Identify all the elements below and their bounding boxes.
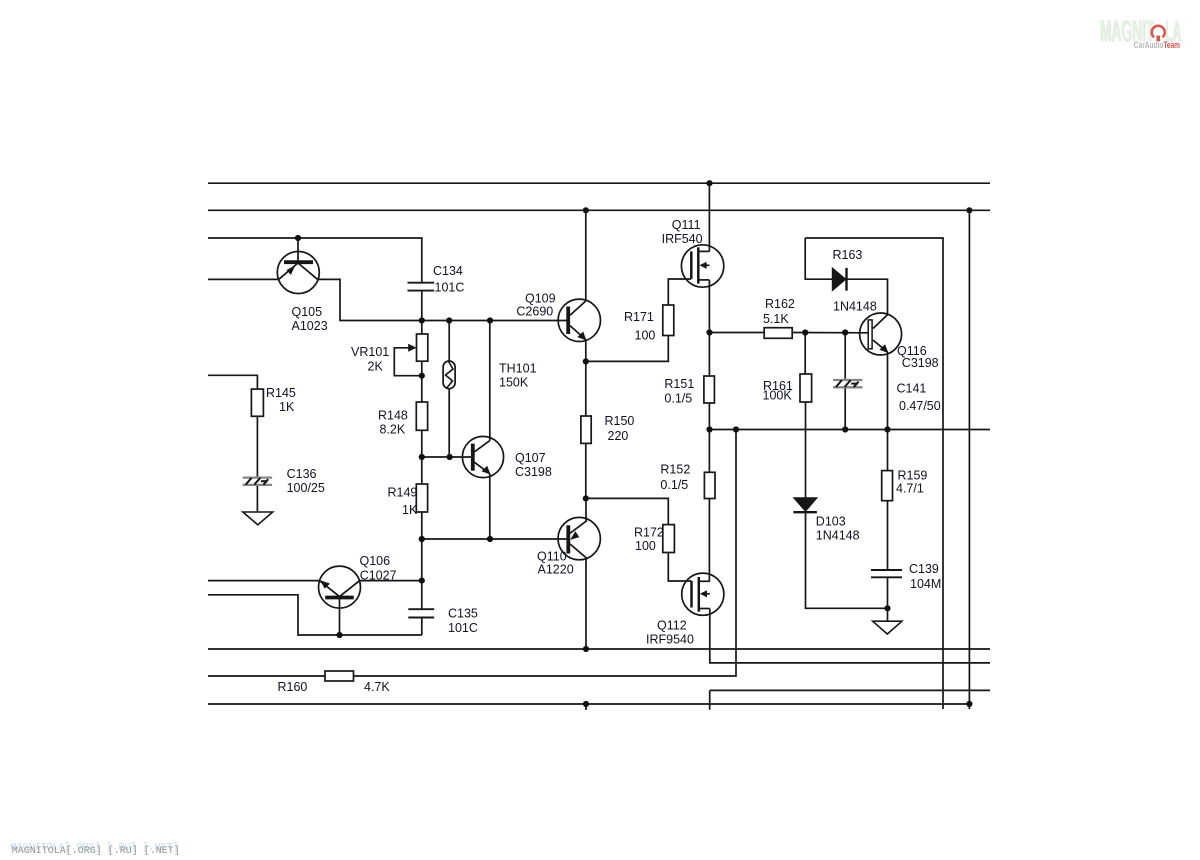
svg-text:Q109: Q109 (525, 292, 556, 306)
mosfet Q112 (IRF9540) (682, 573, 724, 615)
wire R172 bottom to Q112 gate (668, 553, 691, 582)
wire C139 bottom node (887, 577, 889, 608)
junction node E / Q111 source (706, 329, 712, 335)
svg-text:R160: R160 (278, 680, 308, 694)
junction node C / Q107 emitter (487, 536, 493, 542)
junction H2/Q109 collector (583, 207, 589, 213)
capacitor C139 (871, 570, 902, 577)
wire node E to R162 (709, 332, 764, 334)
svg-text:2K: 2K (368, 360, 384, 374)
transistor Q110 (PNP A1220) (558, 517, 600, 559)
wire R148 top stub (421, 376, 423, 402)
wire R161 bottom to D103 (805, 402, 807, 498)
svg-text:R171: R171 (624, 310, 654, 324)
svg-text:R150: R150 (605, 414, 635, 428)
wire C136 bottom to ground 1 (256, 485, 258, 512)
wire R159 bottom to C139 (887, 501, 889, 570)
junction H2/right bus (966, 207, 972, 213)
wire VR101 bottom stub (421, 361, 423, 376)
capacitor C134 (408, 283, 435, 291)
junction node E / R161 (802, 329, 808, 335)
wire VR101 top stub (421, 321, 423, 335)
junction rail bottom 4 / right bus (966, 701, 972, 707)
wire output rail (709, 429, 990, 431)
mosfet Q111 (IRF540) (681, 245, 723, 287)
wire R149 bottom to node C (421, 512, 423, 539)
junction output rail / R151 (706, 426, 712, 432)
svg-text:R172: R172 (634, 526, 664, 540)
wire H3 left segment to C134 (208, 238, 422, 283)
wire node C down to C135 node (421, 539, 423, 609)
wire R151 bottom to output rail (708, 403, 710, 430)
svg-text:150K: 150K (499, 376, 529, 390)
wire R162 right to Q116 base (792, 332, 868, 334)
resistor R162 (horizontal) (764, 328, 792, 339)
transistor Q105 (PNP A1023, bar top) (277, 252, 319, 294)
svg-text:CarAudio: CarAudio (1134, 40, 1164, 50)
logo power icon (1152, 26, 1165, 41)
wire C141 top stub (844, 333, 846, 379)
svg-text:C3198: C3198 (515, 465, 552, 479)
logo MAGNITOLA top-right (1099, 13, 1181, 50)
svg-text:5.1K: 5.1K (763, 312, 789, 326)
junction node D (583, 495, 589, 501)
wire rail bottom 4 (208, 703, 969, 705)
svg-text:A1023: A1023 (292, 319, 328, 333)
svg-text:VR101: VR101 (351, 345, 389, 359)
wire Q111 drain up to H1 (708, 183, 710, 251)
wire VR101 wiper (394, 348, 422, 376)
wire right bus x969 (968, 210, 970, 709)
wire R145 bottom to C136 (256, 416, 258, 477)
wire R171 top to Q111 gate (668, 279, 691, 305)
wire TH101 bottom (448, 389, 450, 457)
svg-text:TH101: TH101 (499, 362, 537, 376)
junction rail bottom 4 node F (583, 701, 589, 707)
resistor R161 (800, 374, 812, 402)
svg-text:C136: C136 (287, 467, 317, 481)
transistor Q116 (NPN C3198, hollow bar) (860, 313, 902, 355)
svg-text:R159: R159 (898, 469, 928, 483)
svg-text:Q111: Q111 (672, 218, 701, 232)
wire Q110 emitter up (585, 498, 587, 520)
wire rail bottom 3 stub down (709, 690, 711, 709)
ground below C139 (873, 621, 902, 634)
capacitor C141 (electrolytic, hatched) (833, 380, 862, 387)
junction node B / R148 (419, 454, 425, 460)
junction node B / TH101 bottom (447, 454, 453, 460)
svg-text:R152: R152 (660, 463, 690, 477)
svg-text:C1027: C1027 (360, 569, 397, 583)
svg-text:R162: R162 (765, 297, 795, 311)
wire rail bottom 2 with feedback riser (208, 430, 736, 677)
capacitor C135 (408, 609, 434, 617)
wire Q112 source down then right (710, 609, 990, 663)
svg-text:C141: C141 (897, 382, 927, 396)
resistor R150 (581, 416, 591, 443)
wire Q105 base input (208, 278, 279, 280)
junction node E / C141 (842, 329, 848, 335)
svg-text:1K: 1K (279, 400, 295, 414)
wire TH101 top (448, 321, 450, 362)
junction node A / Q107 collector (487, 317, 493, 323)
wire rail H2 (208, 209, 990, 211)
wire node D to R172 (586, 498, 669, 524)
svg-text:C3198: C3198 (902, 356, 939, 370)
svg-text:101C: 101C (435, 281, 465, 295)
wire Q105 collector to node A (318, 279, 422, 320)
wire R152 top stub (708, 430, 710, 473)
svg-text:8.2K: 8.2K (380, 423, 406, 437)
wire Q109 emitter down (585, 340, 587, 362)
svg-text:Q110: Q110 (537, 549, 567, 563)
junction node C / R149 (419, 536, 425, 542)
svg-text:220: 220 (608, 429, 629, 443)
transistor Q107 (NPN C3198) (462, 436, 503, 477)
svg-text:4.7/1: 4.7/1 (896, 482, 924, 496)
svg-text:4.7K: 4.7K (364, 680, 390, 694)
svg-text:1K: 1K (402, 503, 418, 517)
wire D111 cathode to Q116 collector (847, 279, 888, 315)
wire Q107 emitter down (489, 474, 491, 539)
wire node B to Q107 base (422, 456, 471, 458)
transistor Q109 (NPN C2690) (558, 299, 600, 341)
svg-text:Q106: Q106 (360, 554, 391, 568)
transistor Q106 (NPN C1027, bar bottom) (319, 566, 361, 608)
svg-text:104M: 104M (910, 577, 941, 591)
wire Q106 emitter input (208, 580, 320, 582)
svg-text:C134: C134 (433, 264, 463, 278)
resistor R160 (horizontal) (325, 671, 354, 681)
wire R152 bottom to Q112 drain (708, 499, 710, 582)
wire R151 top stub (708, 333, 710, 377)
wire right bus x943 (805, 238, 943, 709)
svg-text:1N4148: 1N4148 (833, 300, 877, 314)
wire R148 bottom to node B (421, 430, 423, 457)
wire Q107 collector up (489, 321, 491, 441)
wire Q109 emitter node to R171 (586, 336, 669, 362)
wire Q110 collector down to rail (585, 558, 587, 649)
wire C134 bottom (421, 291, 423, 321)
svg-text:0.1/5: 0.1/5 (664, 392, 692, 406)
svg-text:R149: R149 (388, 486, 418, 500)
potentiometer VR101 (408, 334, 428, 361)
resistor R151 (704, 376, 715, 403)
svg-text:C135: C135 (448, 607, 478, 621)
junction Q106 base (336, 632, 342, 638)
ground below C136 (243, 512, 273, 525)
svg-text:Q112: Q112 (657, 619, 687, 633)
diode D111 (1N4148 at R163, pointing right) (832, 268, 846, 291)
svg-text:100/25: 100/25 (287, 481, 325, 495)
wire node C to Q110 base (422, 538, 567, 540)
svg-text:D103: D103 (816, 515, 846, 529)
wire C141 bottom to output rail (844, 387, 846, 430)
svg-text:Q107: Q107 (515, 451, 546, 465)
svg-text:100: 100 (635, 539, 656, 553)
wire R149 top stub (421, 457, 423, 484)
junction C135 top (419, 578, 425, 584)
wire Q106 base down (339, 599, 341, 635)
svg-text:IRF9540: IRF9540 (646, 633, 694, 647)
wire rail H1 (top supply) (208, 182, 990, 184)
junction H1/Q111 drain (706, 180, 712, 186)
junction node A / C134 (419, 317, 425, 323)
resistor R152 (704, 472, 715, 498)
logo CarAudio Team (1134, 40, 1180, 50)
wire R150 top stub (585, 361, 587, 416)
wire D103 cathode down then right (806, 512, 888, 608)
wire R161 top stub (804, 333, 806, 375)
wire rail bottom 3 (710, 689, 990, 691)
svg-text:1N4148: 1N4148 (816, 529, 860, 543)
diode D103 (1N4148, pointing down) (793, 498, 817, 512)
wire D111 anode branch (805, 238, 832, 279)
svg-text:C2690: C2690 (516, 305, 553, 319)
junction node A / TH101 (446, 317, 452, 323)
junction VR101 wiper (419, 373, 425, 379)
junction output rail / C141 (842, 426, 848, 432)
junction output rail / Q116 emitter (884, 426, 890, 432)
svg-text:R163: R163 (833, 248, 863, 262)
wire C135 bottom stub (421, 618, 423, 636)
wire lower input to C135 bottom (208, 595, 422, 635)
svg-text:R151: R151 (664, 377, 694, 391)
thermistor TH101 (443, 361, 455, 389)
wire Q109 collector up to H2 (585, 210, 587, 301)
resistor R148 (416, 402, 427, 430)
wire rail bottom 1 (208, 648, 990, 650)
wire ground 2 stub (887, 608, 889, 621)
resistor R171 (663, 305, 674, 336)
svg-text:Team: Team (1163, 40, 1180, 50)
capacitor C136 (electrolytic, hatched) (243, 478, 272, 485)
svg-text:Q105: Q105 (292, 305, 323, 319)
svg-text:100K: 100K (763, 389, 793, 403)
wire node A horizontal to Q109 base (422, 320, 567, 322)
svg-text:101C: 101C (448, 621, 478, 635)
junction output rail / feedback riser (733, 426, 739, 432)
resistor R145 (251, 389, 263, 416)
svg-text:C139: C139 (909, 562, 939, 576)
svg-text:R148: R148 (378, 409, 408, 423)
junction Q110 collector / rail (583, 646, 589, 652)
wire Q111 source down to node E (708, 280, 710, 333)
resistor R149 (416, 484, 427, 512)
svg-text:R145: R145 (266, 386, 296, 400)
junction H3/Q105 emitter (295, 235, 301, 241)
wire R150 bottom to node D (585, 443, 587, 498)
svg-text:0.1/5: 0.1/5 (660, 478, 688, 492)
junction Q109 emitter node (583, 358, 589, 364)
svg-text:100: 100 (635, 329, 656, 343)
svg-text:A1220: A1220 (538, 563, 574, 577)
wire Q106 collector to C135 top node (359, 580, 422, 582)
resistor R159 (882, 471, 893, 501)
wire Q116 emitter down to output rail (887, 352, 889, 429)
svg-text:0.47/50: 0.47/50 (899, 399, 941, 413)
svg-text:MAGNITOLA[.ORG] [.RU] [.NET]: MAGNITOLA[.ORG] [.RU] [.NET] (12, 845, 180, 857)
wire R159 top stub (887, 430, 889, 471)
wire Q105 emitter stub (297, 238, 299, 261)
resistor R172 (663, 525, 675, 553)
wire stub below node F (585, 704, 587, 710)
svg-text:IRF540: IRF540 (662, 232, 703, 246)
wire R145 top (208, 375, 257, 389)
junction C139 bottom / D103 (884, 605, 890, 611)
